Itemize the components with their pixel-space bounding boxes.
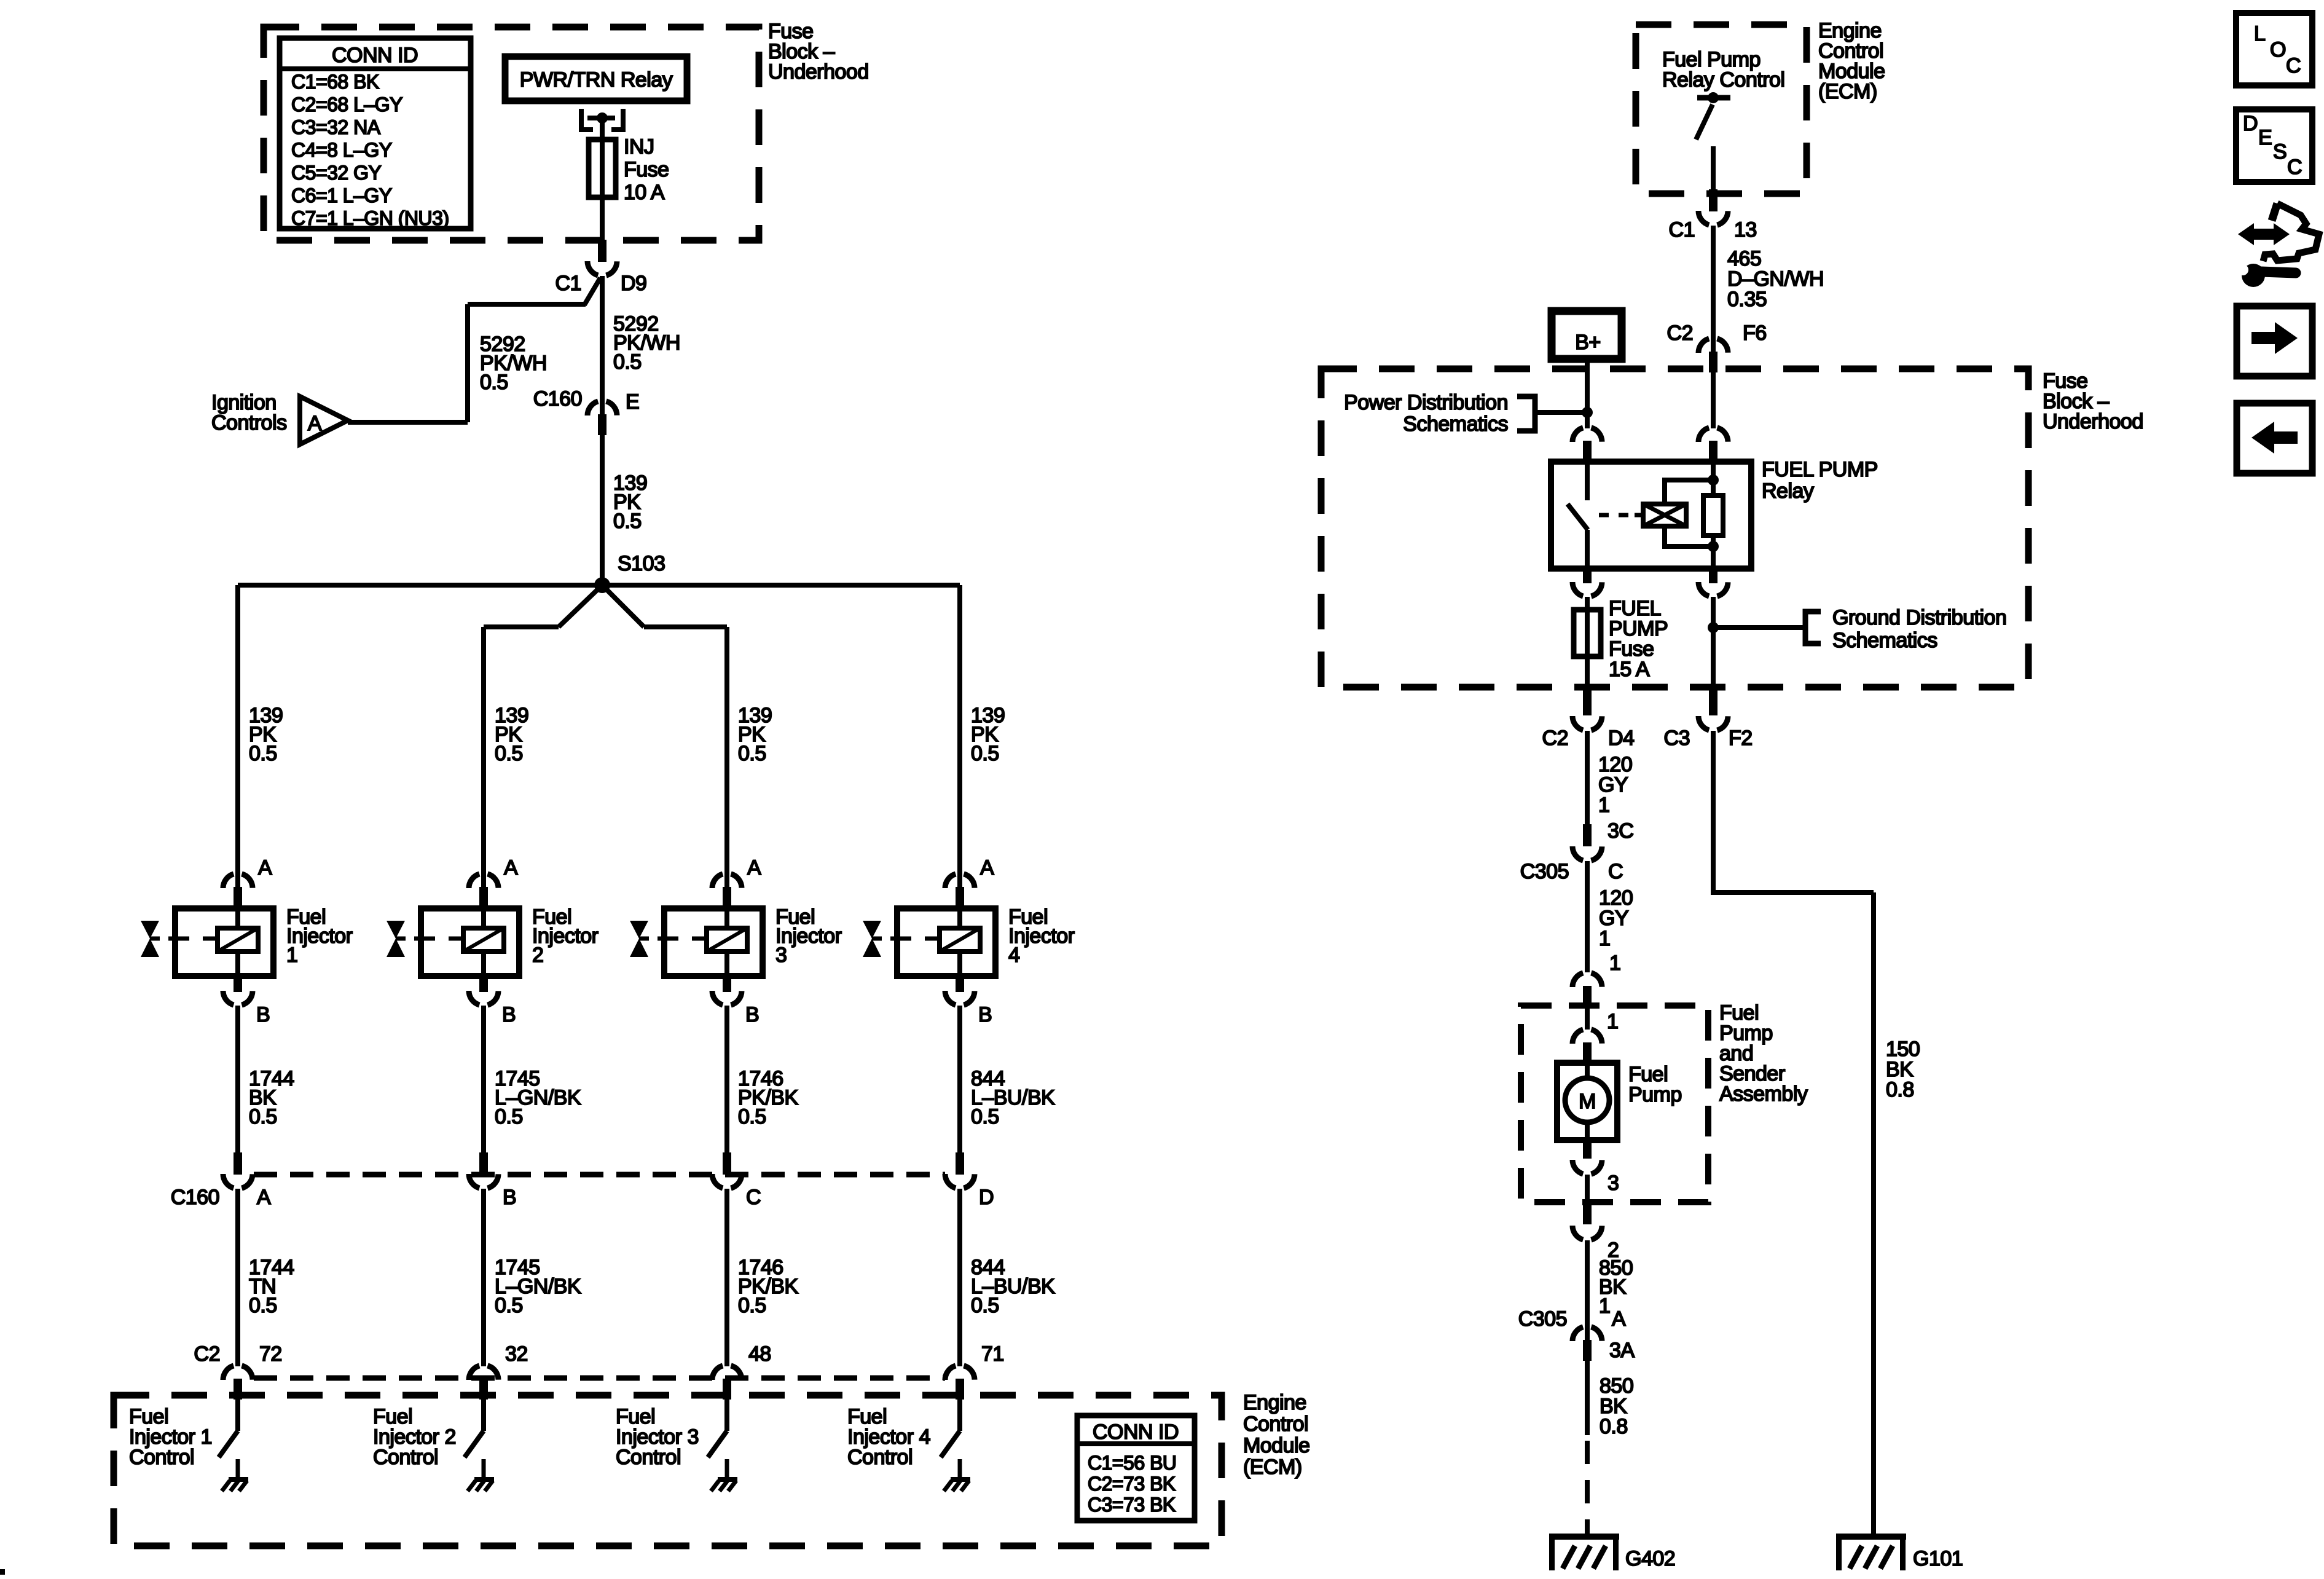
connector arc <box>945 1174 975 1189</box>
wire feed injector 4 <box>957 585 962 889</box>
svg-text:10 A: 10 A <box>624 181 665 204</box>
svg-text:0.5: 0.5 <box>249 1105 277 1128</box>
FUEL PUMP relay connectors (bottom) <box>1583 566 1592 583</box>
svg-text:0.5: 0.5 <box>613 350 642 374</box>
svg-text:A: A <box>1612 1307 1626 1331</box>
svg-text:(ECM): (ECM) <box>1818 80 1877 103</box>
svg-text:C2: C2 <box>1542 726 1568 750</box>
svg-text:C160: C160 <box>533 387 582 411</box>
wire C1/D9 to C160/E <box>600 276 605 415</box>
relay 87? right wire down <box>1711 597 1716 687</box>
FUEL PUMP fuse 15A <box>1574 610 1601 656</box>
svg-text:72: 72 <box>259 1342 282 1366</box>
svg-text:A: A <box>504 856 518 880</box>
svg-text:4: 4 <box>1008 943 1019 967</box>
relay coil (X box) <box>1643 504 1686 526</box>
svg-text:Power Distribution: Power Distribution <box>1344 391 1508 414</box>
svg-text:M: M <box>1579 1090 1596 1113</box>
svg-text:A: A <box>980 856 994 880</box>
svg-text:1: 1 <box>1599 1294 1610 1318</box>
svg-text:D9: D9 <box>621 272 646 295</box>
connector C305/C (3C) <box>1583 824 1592 846</box>
svg-text:INJ: INJ <box>624 135 654 159</box>
wire feed injector 2 <box>481 627 486 889</box>
svg-text:15 A: 15 A <box>1609 658 1650 681</box>
svg-text:3A: 3A <box>1609 1339 1635 1362</box>
svg-text:0.35: 0.35 <box>1727 288 1767 311</box>
connector stub <box>1709 352 1717 372</box>
relay switch <box>1585 462 1590 500</box>
connector stub <box>1583 1340 1592 1361</box>
svg-text:Relay: Relay <box>1762 479 1814 503</box>
connector stub <box>1583 1042 1592 1063</box>
svg-text:0.5: 0.5 <box>971 1294 999 1317</box>
svg-text:71: 71 <box>981 1342 1004 1366</box>
connector stub <box>479 1152 488 1175</box>
connector arc <box>223 1174 253 1189</box>
svg-text:C: C <box>2287 156 2302 179</box>
junction to ground distribution <box>1708 622 1719 633</box>
ground G402 <box>1549 1534 1619 1540</box>
wire B+ to relay <box>1585 359 1590 428</box>
fuel pump motor <box>1557 1063 1617 1140</box>
svg-text:CONN ID: CONN ID <box>1093 1420 1179 1444</box>
svg-text:C4=8 L–GY: C4=8 L–GY <box>291 139 392 161</box>
svg-text:0.5: 0.5 <box>971 742 999 765</box>
wire injector 3 to C160 <box>724 1006 729 1153</box>
wire 120 GY to C305 <box>1585 731 1590 824</box>
connector stub <box>479 887 488 908</box>
svg-text:0.5: 0.5 <box>738 1105 766 1128</box>
fuel injector 3 control driver <box>724 1400 729 1431</box>
svg-text:1: 1 <box>1598 793 1609 817</box>
svg-text:C1=68 BK: C1=68 BK <box>291 71 379 93</box>
LOC icon <box>2236 13 2312 85</box>
fuel injector 2 control driver <box>481 1400 486 1431</box>
svg-text:G402: G402 <box>1625 1547 1675 1570</box>
svg-text:B: B <box>978 1003 992 1026</box>
junction node <box>1582 407 1593 418</box>
wire diagonal to injector 3 branch <box>602 585 644 627</box>
connector arc <box>1572 427 1602 442</box>
connector arc <box>712 1174 742 1189</box>
C2 ECM connector row dashed line <box>254 1376 945 1381</box>
svg-text:48: 48 <box>748 1342 771 1366</box>
svg-text:E: E <box>626 390 639 414</box>
svg-text:C305: C305 <box>1520 860 1569 883</box>
wire injector 1 to C160 <box>235 1006 240 1153</box>
fuel pump and sender assembly dashed box <box>1521 1006 1708 1202</box>
PWR/TRN Relay box <box>505 57 687 101</box>
connector C2/D4 <box>1583 686 1592 715</box>
fuel pump relay control switch <box>1697 95 1730 101</box>
svg-text:Module: Module <box>1243 1434 1310 1457</box>
wire feed injector 1 <box>235 585 240 889</box>
connector stub <box>956 1152 964 1175</box>
svg-text:Control: Control <box>129 1446 194 1469</box>
svg-text:Control: Control <box>373 1446 438 1469</box>
svg-text:0.5: 0.5 <box>738 1294 766 1317</box>
connector stub <box>723 1152 731 1175</box>
connector arc <box>469 873 498 888</box>
fuel injector 4 <box>957 908 962 929</box>
svg-text:D: D <box>2243 112 2258 135</box>
power distribution bracket <box>1517 396 1535 431</box>
svg-text:B: B <box>503 1186 516 1209</box>
connector arc <box>945 1365 975 1380</box>
svg-text:Engine: Engine <box>1243 1391 1306 1414</box>
fuse block underhood (left) dashed box <box>264 27 759 240</box>
injector 3 valve symbol <box>630 921 648 939</box>
dashed wire to G402 <box>1585 1441 1590 1535</box>
fuel injector 3 <box>724 908 729 929</box>
svg-text:C6=1 L–GY: C6=1 L–GY <box>291 184 392 207</box>
svg-text:32: 32 <box>505 1342 528 1366</box>
DESC icon <box>2236 109 2312 182</box>
svg-text:0.5: 0.5 <box>971 1105 999 1128</box>
svg-text:C3: C3 <box>1664 726 1690 750</box>
wire to ECM <box>724 1189 729 1366</box>
svg-text:(ECM): (ECM) <box>1243 1455 1302 1479</box>
C160 inline connector row dashed line <box>254 1172 945 1178</box>
svg-text:B: B <box>256 1003 270 1026</box>
connector stub <box>598 414 607 435</box>
svg-text:0.5: 0.5 <box>249 1294 277 1317</box>
connector arc <box>945 873 975 888</box>
ground (injector 3 control) <box>718 1477 737 1482</box>
FUEL PUMP relay box <box>1551 462 1751 569</box>
svg-text:Underhood: Underhood <box>768 60 869 84</box>
page corner mark <box>0 1569 5 1575</box>
svg-text:C2=68 L–GY: C2=68 L–GY <box>291 93 402 116</box>
connector stub <box>234 887 242 908</box>
svg-text:PWR/TRN Relay: PWR/TRN Relay <box>520 68 673 92</box>
svg-text:L: L <box>2254 22 2265 45</box>
B+ power feed box <box>1552 311 1622 359</box>
svg-text:2: 2 <box>532 943 543 967</box>
connector arc <box>469 1365 498 1380</box>
loc/desc wrench icon <box>2272 203 2277 221</box>
svg-text:FUEL PUMP: FUEL PUMP <box>1762 458 1878 481</box>
wire C160/E to S103 <box>600 435 605 585</box>
svg-text:0.5: 0.5 <box>480 371 508 394</box>
connector arc <box>1698 211 1728 226</box>
connector stub <box>723 1379 731 1400</box>
svg-text:B: B <box>745 1003 759 1026</box>
svg-text:0.8: 0.8 <box>1600 1415 1628 1438</box>
svg-text:C5=32 GY: C5=32 GY <box>291 162 381 184</box>
svg-text:0.8: 0.8 <box>1886 1078 1914 1101</box>
wire 465 D-GN/WH <box>1711 226 1716 353</box>
svg-text:B+: B+ <box>1575 331 1601 354</box>
svg-text:D4: D4 <box>1608 726 1634 750</box>
connector arc <box>469 1174 498 1189</box>
wire diagonal to injector 2 branch <box>559 585 602 627</box>
svg-text:Assembly: Assembly <box>1719 1082 1808 1106</box>
connector pin B injector 1 <box>234 975 242 992</box>
connector arc <box>587 401 617 415</box>
svg-text:C3=32 NA: C3=32 NA <box>291 116 381 138</box>
INJ fuse 10A <box>589 140 616 197</box>
previous schematic arrow icon <box>2237 403 2312 473</box>
svg-text:1: 1 <box>1607 1010 1618 1033</box>
svg-text:CONN ID: CONN ID <box>332 44 418 67</box>
svg-text:1: 1 <box>1599 927 1610 950</box>
svg-text:Pump: Pump <box>1628 1083 1682 1106</box>
relay right wire <box>1711 462 1716 569</box>
injector 2 valve symbol <box>387 921 405 939</box>
svg-text:B: B <box>502 1003 516 1026</box>
svg-text:E: E <box>2258 126 2272 149</box>
svg-text:C2=73 BK: C2=73 BK <box>1088 1473 1176 1495</box>
fuel injector 2 <box>481 908 486 929</box>
svg-text:C305: C305 <box>1518 1307 1567 1331</box>
svg-text:C3=73 BK: C3=73 BK <box>1088 1494 1176 1516</box>
connector stub <box>1583 441 1592 462</box>
svg-text:A: A <box>257 1186 271 1209</box>
svg-text:Underhood: Underhood <box>2043 410 2143 433</box>
ECM dashed box (top right) <box>1636 25 1807 194</box>
connector pin B injector 3 <box>723 975 731 992</box>
fuel injector 1 <box>235 908 240 929</box>
wire 150 BK 0.8 to G101 <box>1711 731 1716 892</box>
connector stub <box>598 240 607 262</box>
connector arc <box>1698 427 1728 442</box>
fuel injector 1 control driver <box>235 1400 240 1431</box>
wire injector 4 to C160 <box>957 1006 962 1153</box>
svg-text:A: A <box>747 856 761 880</box>
svg-text:3: 3 <box>775 943 787 967</box>
svg-text:F6: F6 <box>1743 321 1767 345</box>
connector stub <box>1709 189 1717 211</box>
ground distribution bracket <box>1805 612 1821 644</box>
coil loop wires <box>1665 480 1713 503</box>
connector stub <box>956 1379 964 1400</box>
connector stub <box>1583 986 1592 1007</box>
connector arc <box>1572 1326 1602 1341</box>
svg-text:0.5: 0.5 <box>249 742 277 765</box>
svg-text:0.5: 0.5 <box>738 742 766 765</box>
svg-text:Schematics: Schematics <box>1403 412 1508 436</box>
wire to ECM <box>481 1189 486 1366</box>
wire 850 BK 0.8 <box>1585 1361 1590 1435</box>
injector 1 valve symbol <box>141 921 159 939</box>
wire relay to INJ fuse <box>600 120 605 240</box>
svg-text:Schematics: Schematics <box>1832 629 1937 652</box>
wire to power distribution <box>1536 410 1587 415</box>
connector stub <box>956 887 964 908</box>
svg-text:Control: Control <box>1243 1412 1308 1436</box>
svg-text:C: C <box>746 1186 761 1209</box>
ignition controls triangle A <box>300 396 348 444</box>
svg-text:C1: C1 <box>1669 218 1695 242</box>
next schematic arrow icon <box>2237 306 2312 376</box>
connector arc <box>1572 1029 1602 1044</box>
svg-text:C7=1 L–GN (NU3): C7=1 L–GN (NU3) <box>291 207 449 229</box>
svg-text:1: 1 <box>1609 951 1620 975</box>
svg-text:C: C <box>1608 860 1623 883</box>
connector pin 2 (below box) <box>1583 1202 1592 1224</box>
svg-text:Relay Control: Relay Control <box>1662 68 1784 92</box>
svg-text:Controls: Controls <box>211 411 287 435</box>
PWR/TRN relay contact <box>581 109 593 130</box>
svg-text:D: D <box>979 1186 994 1209</box>
connector pin B injector 4 <box>956 975 964 992</box>
svg-text:0.5: 0.5 <box>495 1294 523 1317</box>
svg-text:0.5: 0.5 <box>495 742 523 765</box>
wire branch to ignition controls <box>584 278 600 305</box>
svg-text:C1=56 BU: C1=56 BU <box>1088 1452 1177 1474</box>
svg-text:G101: G101 <box>1913 1547 1963 1570</box>
svg-text:C: C <box>2286 54 2301 77</box>
svg-text:Control: Control <box>847 1446 913 1469</box>
svg-text:C160: C160 <box>171 1186 219 1209</box>
svg-text:Control: Control <box>616 1446 681 1469</box>
fuel injector 4 control driver <box>957 1400 962 1431</box>
wire to ECM <box>957 1189 962 1366</box>
wire 120 GY to pump <box>1585 861 1590 972</box>
svg-text:S103: S103 <box>618 552 665 575</box>
svg-text:Fuse: Fuse <box>624 158 669 181</box>
connector arc <box>223 873 253 888</box>
connector pin 3 <box>1583 1140 1592 1159</box>
svg-text:A: A <box>258 856 272 880</box>
svg-text:13: 13 <box>1734 218 1757 242</box>
svg-text:1: 1 <box>286 943 297 967</box>
svg-text:3C: 3C <box>1608 819 1633 843</box>
svg-text:C2: C2 <box>194 1342 220 1366</box>
svg-text:O: O <box>2270 38 2286 61</box>
relay actuation dashes <box>1599 513 1609 518</box>
fuse block underhood (right) dashed box <box>1321 369 2028 687</box>
wire relay to fuel pump fuse <box>1585 597 1590 687</box>
connector C3/F2 <box>1709 686 1717 715</box>
svg-text:0.5: 0.5 <box>495 1105 523 1128</box>
connector arc <box>1698 338 1728 353</box>
ground (injector 2 control) <box>474 1477 494 1482</box>
svg-text:C1: C1 <box>555 272 581 295</box>
ground (injector 1 control) <box>229 1477 248 1482</box>
ground G101 <box>1836 1534 1906 1540</box>
injector 4 valve symbol <box>863 921 881 939</box>
wire feed injector 3 <box>724 627 729 889</box>
connector stub <box>234 1152 242 1175</box>
CONN ID table (fuse block) <box>280 38 471 229</box>
connector pin B injector 2 <box>479 975 488 992</box>
ground (injector 4 control) <box>951 1477 970 1482</box>
wire to ECM <box>235 1189 240 1366</box>
wire 850 BK <box>1585 1240 1590 1340</box>
svg-text:3: 3 <box>1608 1171 1619 1195</box>
connector arc <box>223 1365 253 1380</box>
connector arc <box>587 261 617 276</box>
svg-text:0.5: 0.5 <box>613 510 642 533</box>
ECM dashed box (bottom) <box>114 1395 1222 1546</box>
connector arc <box>712 1365 742 1380</box>
connector stub <box>1709 441 1717 462</box>
connector stub <box>479 1379 488 1400</box>
relay resistor <box>1703 495 1723 535</box>
svg-text:S: S <box>2273 140 2287 163</box>
wire injector 2 to C160 <box>481 1006 486 1153</box>
svg-text:A: A <box>308 412 322 435</box>
svg-text:C2: C2 <box>1667 321 1693 345</box>
connector stub <box>723 887 731 908</box>
connector stub <box>234 1379 242 1400</box>
svg-text:F2: F2 <box>1729 726 1753 750</box>
CONN ID table (ECM) <box>1077 1416 1195 1521</box>
connector arc <box>712 873 742 888</box>
connector arc <box>1572 972 1602 987</box>
svg-text:Ground Distribution: Ground Distribution <box>1832 606 2006 629</box>
